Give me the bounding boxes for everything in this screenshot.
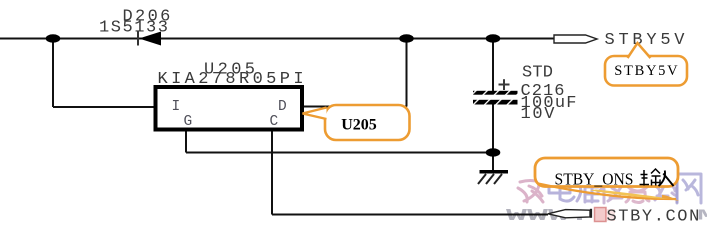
svg-text:G: G — [184, 114, 193, 130]
svg-text:STBY.CON: STBY.CON — [607, 207, 701, 225]
svg-text:STBY5V: STBY5V — [614, 63, 679, 79]
svg-text:STD: STD — [522, 63, 553, 82]
svg-text:D: D — [278, 99, 287, 115]
svg-text:U205: U205 — [341, 117, 377, 134]
svg-text:C: C — [270, 114, 279, 130]
svg-text:KIA278R05PI: KIA278R05PI — [158, 70, 307, 89]
svg-text:10V: 10V — [521, 105, 557, 124]
svg-text:STBY_ONS: STBY_ONS — [555, 170, 634, 189]
svg-text:I: I — [172, 99, 181, 115]
svg-text:1S5133: 1S5133 — [99, 19, 170, 38]
svg-text:STBY5V: STBY5V — [605, 31, 689, 50]
